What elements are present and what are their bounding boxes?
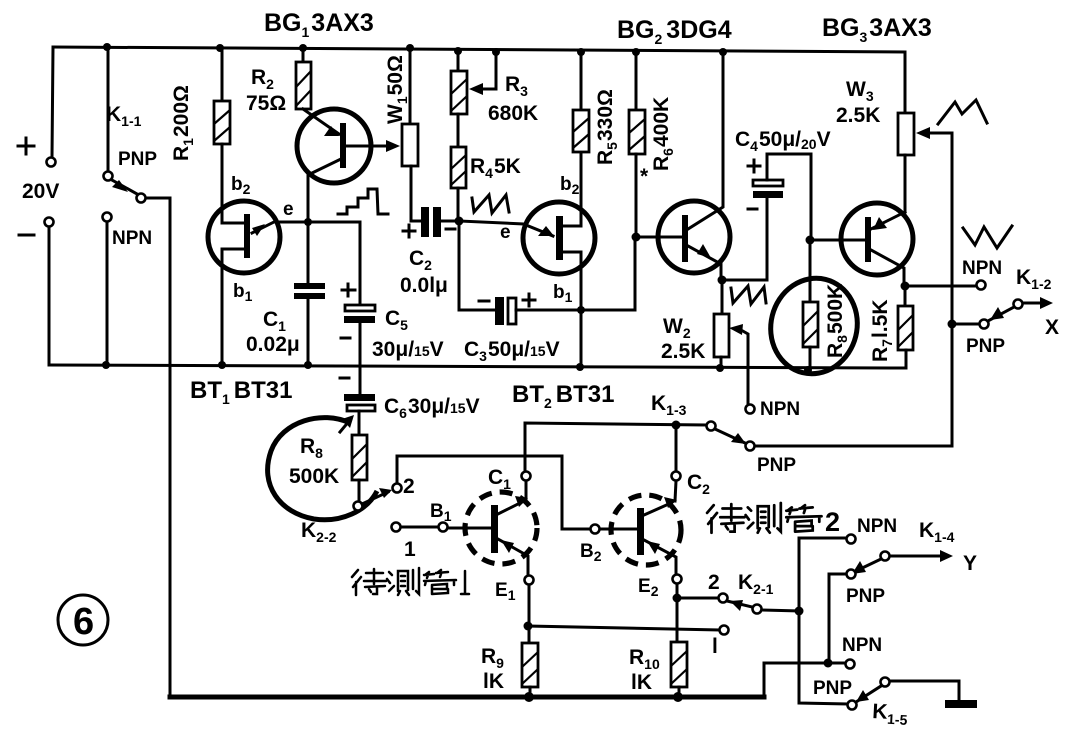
junction e node <box>304 218 312 226</box>
svg-text:2: 2 <box>708 571 720 594</box>
wire BG3 base lead <box>811 239 865 242</box>
waveform sawtooth at BT2 e <box>472 195 509 213</box>
node K1-2 moving contact <box>1014 300 1023 309</box>
junction mid rail at BT1 b1 <box>218 361 226 369</box>
svg-text:2.5K: 2.5K <box>836 104 880 127</box>
wire R3 top lead <box>457 51 460 71</box>
label C4 plus <box>748 160 760 172</box>
switch K1-4 arm <box>856 559 881 571</box>
svg-text:W150Ω: W150Ω <box>384 55 410 124</box>
junction K2-1 output <box>795 607 804 616</box>
switch K1-1 arm arrowhead <box>112 180 128 192</box>
wiper R3 arrowhead <box>469 83 483 95</box>
waveform staircase at BT1 e <box>338 189 388 214</box>
wire BT2 b2 lead to R5 <box>563 152 581 226</box>
wire terminal2 up and right to B2 <box>397 456 590 529</box>
wire B2 lead <box>600 528 637 531</box>
svg-text:R6400K: R6400K <box>650 97 676 171</box>
switch K2-1 arm arrowhead <box>730 600 743 611</box>
wire B1 outer link <box>401 526 438 529</box>
svg-text:R5330Ω: R5330Ω <box>594 89 620 165</box>
svg-text:R8500K: R8500K <box>824 284 850 358</box>
wire R9 bottom to bottom rail <box>529 687 532 697</box>
transistor T2 emitter arrowhead <box>647 541 660 554</box>
svg-text:Y: Y <box>963 552 977 575</box>
svg-text:0.02μ: 0.02μ <box>246 333 300 356</box>
node K1-5 NPN contact <box>846 660 855 669</box>
switch K1-5 arm arrowhead <box>856 690 869 702</box>
transistor BT2 emitter line <box>526 225 553 236</box>
label C3 plus <box>523 294 535 306</box>
potentiometer W3 body <box>898 113 914 155</box>
wire E2 node to K2-1 <box>677 597 718 600</box>
junction K1-5 NPN node <box>824 659 833 668</box>
wire emitter node to C4 bottom <box>722 198 767 280</box>
transistor T1 emitter line <box>498 539 528 575</box>
resistor R2 body <box>296 62 311 109</box>
transistor BG3 circle <box>841 203 913 275</box>
transistor T1 emitter arrowhead <box>501 540 514 553</box>
waveform sawtooth at W2 <box>731 286 766 304</box>
node terminal 1 of K2-1 <box>720 626 729 635</box>
label R5 330ohm rotated <box>594 89 620 165</box>
node K1-2 NPN contact <box>977 281 986 290</box>
junction top rail at R3 <box>454 47 462 55</box>
svg-text:BT1BT31: BT1BT31 <box>190 377 292 407</box>
transistor BG1 emitter arrowhead <box>324 126 339 136</box>
transistor T1 collector line <box>498 502 522 514</box>
node C2 terminal <box>672 472 681 481</box>
node K2-1 right contact <box>753 605 762 614</box>
resistor R9 body <box>522 643 538 687</box>
svg-text:lK: lK <box>483 670 504 693</box>
switch K2-2 arm arrowhead <box>379 488 392 498</box>
node K1-5 PNP contact <box>848 701 857 710</box>
wire bottom rail corner up to K1-5 NPN wire <box>764 663 845 697</box>
wire C5 to C6 crossing mid rail <box>359 323 362 394</box>
svg-text:NPN: NPN <box>962 258 1002 279</box>
svg-text:C450μ/20V: C450μ/20V <box>735 128 831 154</box>
ground symbol <box>945 700 977 708</box>
wiper R3 wire <box>474 52 496 89</box>
node K1-4 NPN contact <box>847 535 856 544</box>
wire C1 terminal to T1 collector <box>525 481 528 500</box>
junction E2 node <box>673 594 682 603</box>
wire R4 bottom to junction <box>457 188 460 221</box>
wire E1 node to terminal 1 <box>528 626 719 630</box>
wire - terminal lead down <box>48 227 51 365</box>
switch K2-1 arm <box>727 601 752 607</box>
resistor R4 body <box>451 147 466 188</box>
transistor BT2 circle <box>523 202 595 274</box>
label + <box>18 138 34 154</box>
transistor BG1 collector line to W1 <box>346 145 394 148</box>
switch K1-5 arm <box>856 686 881 702</box>
svg-text:BG33AX3: BG33AX3 <box>822 14 932 45</box>
node B1 outer terminal <box>392 523 401 532</box>
wire K1-4 Y output arrow <box>890 555 946 558</box>
wire R1 bottom to BT1 b2 <box>222 144 244 223</box>
svg-text:2: 2 <box>825 507 840 537</box>
resistor R1 body <box>214 101 230 144</box>
transistor T2 dashed circle <box>611 495 681 565</box>
node K1-1 PNP contact <box>104 172 113 181</box>
wiper W3 wire to long riser <box>927 133 952 446</box>
wire top supply rail <box>53 47 905 52</box>
wire R8 bottom lead <box>358 480 361 502</box>
node B1 inner terminal <box>439 523 448 532</box>
wire K1-1 NPN lead to mid rail <box>106 222 109 365</box>
svg-text:20V: 20V <box>22 180 59 203</box>
label R8b 500K rotated <box>824 284 850 358</box>
resistor R3 body <box>451 71 467 114</box>
wire R8 top from C6 <box>358 411 361 435</box>
junction E1 node <box>524 622 533 631</box>
label C5 minus <box>341 337 350 340</box>
svg-text:1: 1 <box>404 538 416 561</box>
transistor BG2 emitter arrowhead <box>697 244 711 258</box>
svg-text:X: X <box>1045 316 1059 339</box>
potentiometer W1 body <box>402 124 418 166</box>
transistor BT1 emitter arrowhead <box>252 224 265 236</box>
resistor R6 body <box>629 110 645 154</box>
wire W1 top lead <box>409 48 412 124</box>
junction mid rail at b1 <box>576 363 584 371</box>
label DUT2 chinese dai ce guan 2 <box>707 503 821 533</box>
junction mid rail at R8b <box>804 366 812 374</box>
svg-text:PNP: PNP <box>118 149 157 170</box>
capacitor C6 bottom plate <box>347 405 375 411</box>
transistor BG1 lower lead <box>308 158 343 222</box>
wire K1-3 junction down to C2 terminal <box>675 430 678 471</box>
resistor R10 body <box>671 642 687 687</box>
wire BT1 e to junction <box>276 222 360 305</box>
junction top rail at K1-1 <box>103 43 111 51</box>
wire C1 bottom to mid rail <box>307 295 310 365</box>
label C6 minus <box>340 377 349 380</box>
label C5 plus <box>342 284 355 296</box>
switch K1-1 arm <box>112 180 137 194</box>
wire bottom rail <box>170 695 764 700</box>
node + terminal <box>47 158 56 167</box>
wire BT1 b1 lead down to mid rail <box>222 249 244 365</box>
wire B1 lead <box>448 527 491 530</box>
switch K1-4 arm arrowhead <box>852 561 866 574</box>
svg-text:2.5K: 2.5K <box>661 340 705 363</box>
wire R5 top lead <box>580 52 583 110</box>
wire BT2 b1 lead <box>563 251 581 254</box>
transistor BT1 circle <box>208 201 280 273</box>
wire K1-1 common to bottom rail <box>146 198 170 697</box>
transistor BG2 collector line <box>688 52 723 229</box>
junction top rail at R5 <box>577 48 585 56</box>
potentiometer W2 body <box>714 314 729 357</box>
node K2-1 left contact <box>719 594 728 603</box>
transistor BG3 base bar <box>865 217 871 262</box>
junction mid rail at W2 <box>716 364 724 372</box>
wire R6 bottom to BG2 base <box>635 154 638 237</box>
wire R2 top lead <box>302 48 305 62</box>
svg-text:R45K: R45K <box>470 155 521 181</box>
junction C3 b1 <box>577 306 585 314</box>
figure number circle 6 <box>58 595 108 645</box>
node K1-3 NPN contact <box>746 405 755 414</box>
resistor R5 body <box>573 110 589 152</box>
node K1-3 fixed contact <box>707 422 716 431</box>
svg-text:NPN: NPN <box>760 399 800 420</box>
label C2 minus <box>446 228 455 231</box>
label W1 50ohm rotated <box>384 55 410 124</box>
svg-text:e: e <box>500 222 511 243</box>
svg-text:75Ω: 75Ω <box>246 92 286 115</box>
transistor BG1 base bar <box>340 123 346 168</box>
waveform double sawtooth at K1-2 <box>963 226 1012 248</box>
svg-text:*: * <box>640 165 649 188</box>
svg-text:30μ/15V: 30μ/15V <box>372 338 444 361</box>
transistor BG1 emitter line from R2 <box>303 109 339 134</box>
wire BT2 b1 vertical <box>580 252 583 367</box>
svg-text:R1200Ω: R1200Ω <box>170 85 196 161</box>
transistor T1 base bar <box>491 505 498 553</box>
junction BG3 emitter node <box>901 282 910 291</box>
wire R1 top lead <box>221 48 224 101</box>
wire left + terminal lead <box>52 47 53 157</box>
junction bottom rail at R9 <box>524 692 534 702</box>
node K1-2 PNP contact <box>980 320 989 329</box>
transistor BT2 emitter arrowhead <box>538 226 554 236</box>
wire C3 right to b1 junction and BG2 base riser <box>516 237 635 310</box>
svg-text:500K: 500K <box>289 465 339 488</box>
transistor BG3 emitter line <box>871 212 905 229</box>
junction top rail at R3 wiper <box>492 48 500 56</box>
svg-text:lK: lK <box>631 671 652 694</box>
transistor BG2 circle <box>658 201 730 273</box>
junction BG3 base <box>806 236 815 245</box>
wire R9 top lead <box>528 626 531 643</box>
transistor T1 dashed circle <box>465 492 537 564</box>
junction top rail at BG2 collector <box>719 48 727 56</box>
svg-text:BT2BT31: BT2BT31 <box>512 381 614 411</box>
transistor BG2 base bar <box>682 215 688 262</box>
arrowhead into W1 wiper <box>386 140 400 152</box>
wire R7 bottom to mid rail <box>905 350 908 368</box>
junction bottom rail at R10 <box>673 692 683 702</box>
svg-text:R7l.5K: R7l.5K <box>869 300 895 362</box>
capacitor C5 top plate <box>345 305 375 311</box>
node K1-3 PNP contact <box>746 442 755 451</box>
enclosure circle around R8b <box>761 269 868 383</box>
junction top rail at W1 <box>406 44 414 52</box>
node K2-2 wiper contact <box>354 502 363 511</box>
wiper W2 wire down to NPN contact <box>741 330 748 403</box>
transistor T1 collector arrowhead <box>515 496 528 507</box>
svg-text:PNP: PNP <box>757 455 796 476</box>
transistor BG2 emitter line <box>688 246 721 280</box>
wire BT2 e lead <box>459 221 525 224</box>
svg-text:NPN: NPN <box>857 516 897 537</box>
svg-text:PNP: PNP <box>966 336 1005 357</box>
transistor T2 collector arrowhead <box>664 497 677 508</box>
wire junction down to C3 <box>459 221 494 310</box>
resistor R8b body <box>803 302 818 347</box>
wire R10 bottom to rail <box>678 687 681 697</box>
svg-text:680K: 680K <box>488 102 538 125</box>
transistor BT1 base bar <box>244 214 250 258</box>
svg-text:BG23DG4: BG23DG4 <box>617 16 732 47</box>
node K1-5 moving contact <box>881 678 890 687</box>
wire W3 bottom to BG3 emitter <box>904 155 907 212</box>
wire E1 down to junction <box>528 585 531 626</box>
node C1 terminal <box>522 472 531 481</box>
wiper W2 arrowhead <box>729 324 743 335</box>
wire W1 bottom to C2 <box>411 166 420 221</box>
label DUT1 chinese dai ce guan 1 <box>352 568 456 595</box>
wire R8b bottom to mid rail <box>809 347 812 370</box>
wire R3 to R4 <box>457 114 460 147</box>
transistor T2 emitter line <box>644 540 676 574</box>
capacitor C1 plates <box>294 286 325 296</box>
svg-text:NPN: NPN <box>842 635 882 656</box>
wire e node down to C1 <box>307 222 310 283</box>
node K1-4 moving contact <box>881 552 890 561</box>
junction mid rail at K1-1 NPN <box>102 361 110 369</box>
label - <box>19 234 34 237</box>
wire K1-3 feed from T1 collector riser <box>525 423 706 476</box>
junction C2 R4 e-node <box>455 217 464 226</box>
wire R10 top lead <box>676 598 679 642</box>
capacitor C4 top plate <box>753 180 783 186</box>
label C2 plus <box>403 225 415 237</box>
transistor T2 base bar <box>637 508 644 555</box>
wire K1-2 X output arrow <box>1023 302 1046 305</box>
wire BG3 base riser down to R8b <box>809 240 812 302</box>
wire C2 right to junction <box>441 220 459 223</box>
wire K1-1 PNP lead from top rail <box>107 48 110 171</box>
node B2 terminal <box>591 525 600 534</box>
capacitor C5 bottom plate <box>344 316 375 323</box>
node E1 terminal <box>525 576 534 585</box>
transistor BG3 emitter arrowhead <box>873 217 887 230</box>
node - terminal <box>45 218 54 227</box>
wire C2 terminal to T2 collector <box>675 481 676 501</box>
transistor BG3 collector line <box>871 250 904 286</box>
svg-text:0.0lμ: 0.0lμ <box>400 274 448 297</box>
wire BG3 emitter to R7 <box>904 286 907 306</box>
adjust arrow R8 <box>340 420 350 432</box>
wire emitter node down to W2 <box>721 280 724 314</box>
wire mid ground rail <box>49 365 906 368</box>
svg-text:C350μ/15V: C350μ/15V <box>464 338 560 364</box>
transistor BG1 circle <box>297 109 371 183</box>
svg-text:PNP: PNP <box>846 586 885 607</box>
junction top rail at R6 <box>632 48 640 56</box>
waveform sawtooth at W3 <box>938 100 987 124</box>
svg-text:l: l <box>712 635 718 658</box>
switch K1-2 arm arrowhead <box>990 307 1004 320</box>
label R7 1.5K rotated <box>869 300 895 362</box>
node K1-1 NPN contact <box>103 213 112 222</box>
junction BG2 base <box>632 233 641 242</box>
junction K1-3 <box>672 421 681 430</box>
wire R6 top lead <box>635 52 638 110</box>
capacitor C2 plates <box>421 207 429 237</box>
capacitor C6 top plate <box>344 394 375 401</box>
resistor R8 body <box>352 435 367 480</box>
junction BG2 emitter node <box>718 276 727 285</box>
resistor R7 body <box>898 306 913 350</box>
capacitor C3 left plate <box>495 297 504 325</box>
wire C4 top to BG3 base riser <box>767 154 811 240</box>
switch K1-3 arm <box>715 429 745 443</box>
wire K1-4 PNP down to K1-5 NPN node <box>829 574 846 663</box>
capacitor C3 right plate <box>508 298 516 324</box>
switch K1-3 arm arrowhead <box>731 433 746 444</box>
wire BG2 base lead <box>636 236 682 239</box>
wire K1-3 PNP to riser <box>755 445 952 448</box>
enclosure circle around R8 <box>268 418 377 520</box>
label R1 200ohm rotated <box>170 85 196 161</box>
wiper W3 arrowhead <box>916 127 930 139</box>
wire W2 bottom to mid rail <box>720 357 723 368</box>
wire E2 to junction <box>676 584 679 598</box>
capacitor C4 bottom plate <box>753 191 783 198</box>
node terminal 2 of K2-2 <box>393 484 402 493</box>
svg-text:C630μ/15V: C630μ/15V <box>384 395 480 421</box>
label DUT1 numeral 1 <box>461 571 469 594</box>
label C4 minus <box>748 208 757 211</box>
label R6 400K rotated <box>650 97 676 171</box>
junction top rail at R1 <box>216 44 224 52</box>
wire K1-5 common to ground <box>890 681 959 701</box>
svg-text:e: e <box>283 199 294 220</box>
wire PNP node to contact <box>952 323 979 326</box>
switch K1-2 arm <box>988 307 1014 321</box>
wire common riser K2-1 to K1-4 NPN and K1-5 PNP <box>799 538 847 704</box>
junction mid rail at C1 <box>304 361 312 369</box>
svg-text:2: 2 <box>403 475 415 498</box>
junction top rail at R2 <box>299 44 307 52</box>
svg-text:BG13AX3: BG13AX3 <box>264 9 374 40</box>
junction K1-2 PNP node on riser <box>948 320 957 329</box>
transistor BT1 emitter line <box>252 221 276 233</box>
node K1-1 moving contact <box>137 194 146 203</box>
wire W3 top from supply rail corner <box>904 52 907 113</box>
svg-text:NPN: NPN <box>112 228 152 249</box>
wire BG3 emitter node to NPN contact K1-2 <box>905 285 976 288</box>
switch K2-2 arm <box>362 492 388 504</box>
node K1-4 PNP contact <box>847 570 856 579</box>
label C3 minus <box>479 300 489 303</box>
transistor BT2 base bar <box>556 216 563 260</box>
transistor T2 collector line <box>644 503 671 515</box>
node E2 terminal <box>673 575 682 584</box>
svg-text:6: 6 <box>73 601 94 643</box>
svg-text:PNP: PNP <box>813 678 852 699</box>
wire K2-1 to common riser <box>762 610 799 611</box>
